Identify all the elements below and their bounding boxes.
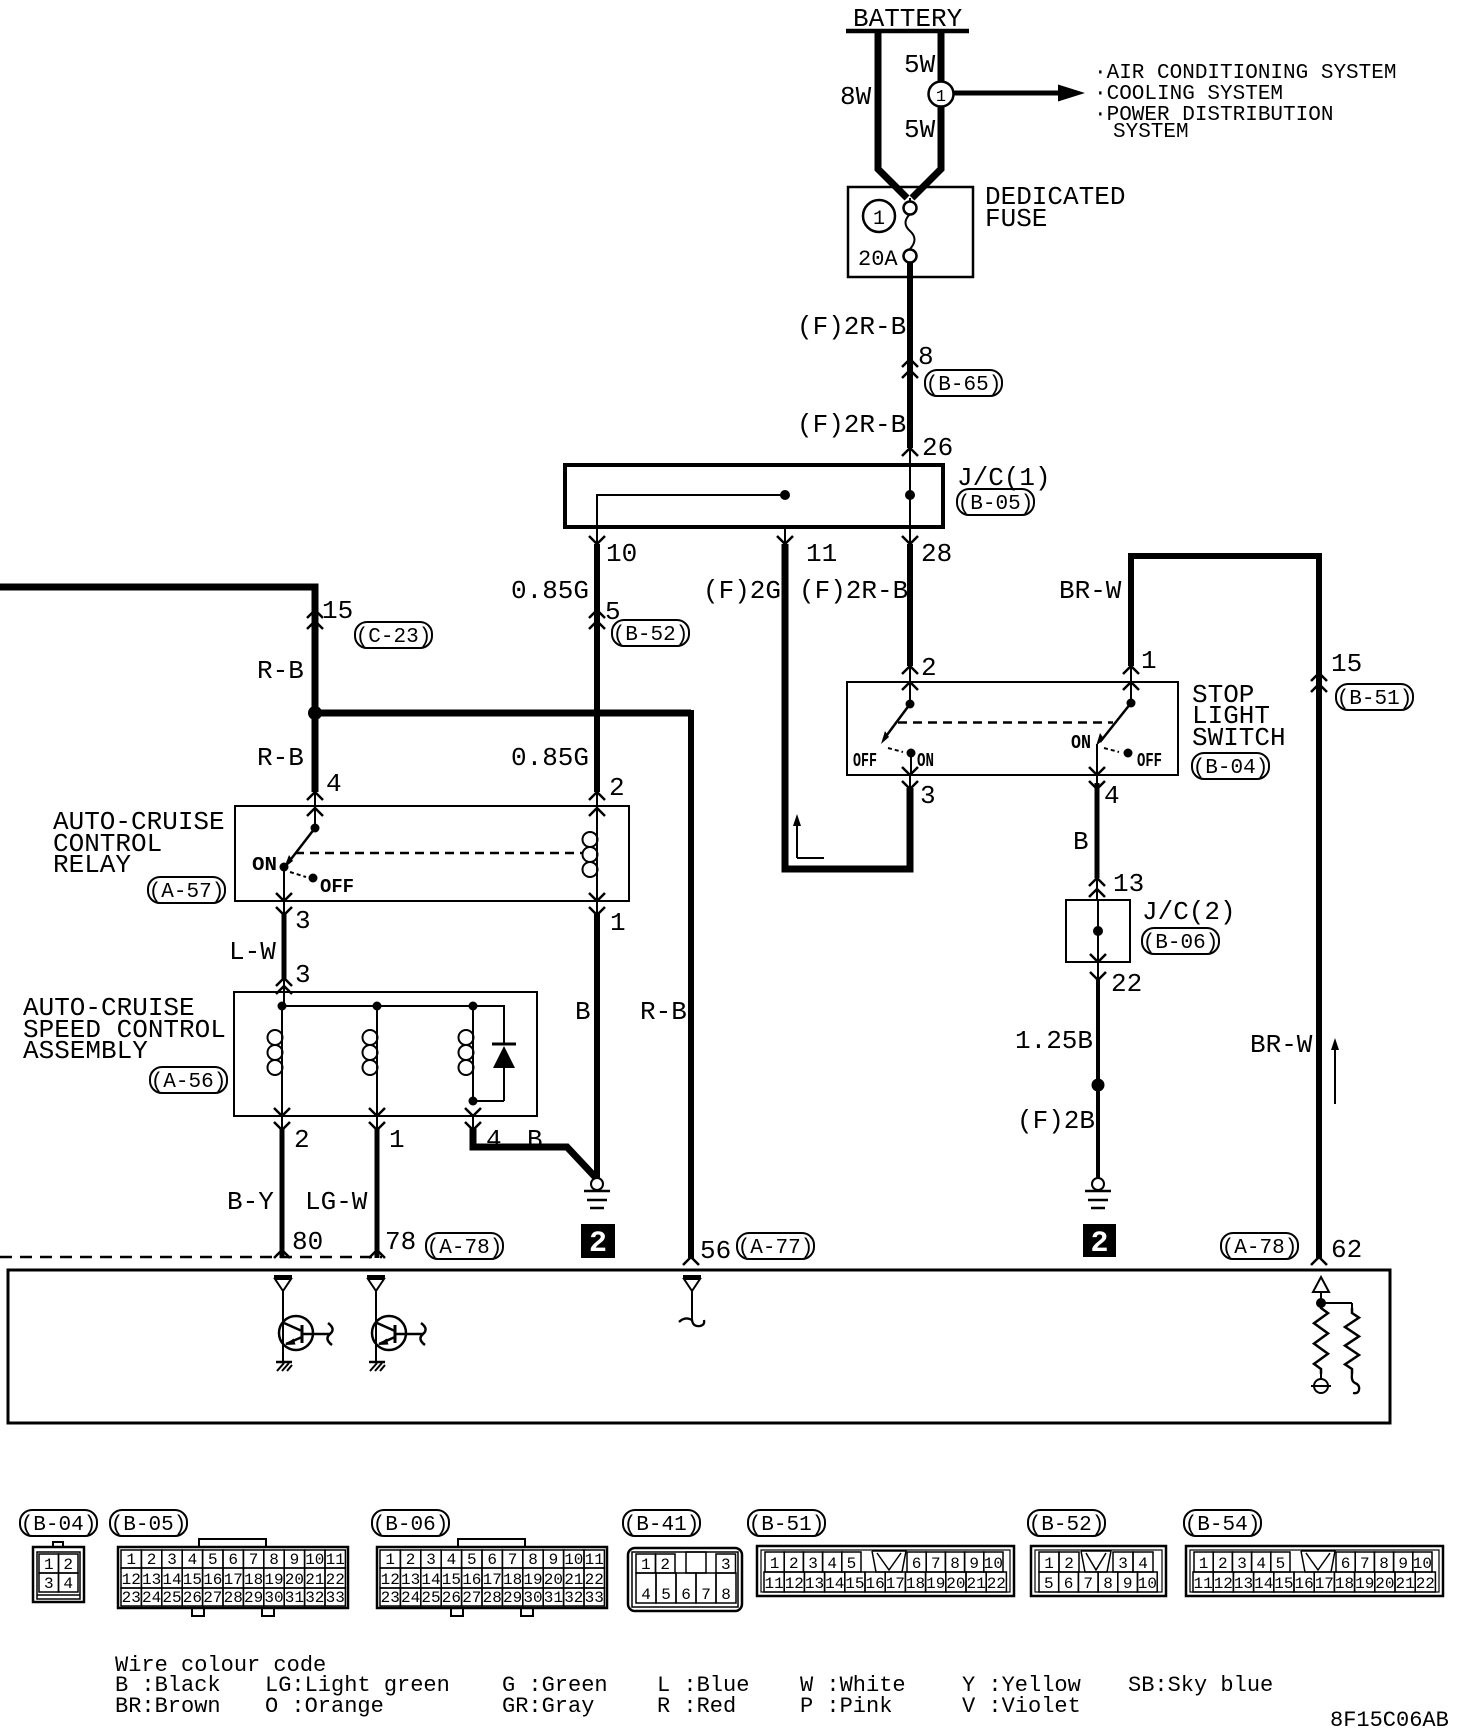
svg-text:17: 17: [224, 1571, 243, 1589]
wire battery left lead 8W: [878, 31, 907, 198]
svg-text:3: 3: [1237, 1555, 1247, 1573]
wire battery right lead 5W: [912, 31, 941, 198]
stoplight left ON contact lead: [910, 753, 912, 775]
stoplight right OFF contact dashed: [1104, 748, 1119, 752]
svg-text:R-B: R-B: [257, 656, 304, 686]
svg-text:R-B: R-B: [640, 997, 687, 1027]
svg-text:(B-51): (B-51): [1337, 688, 1413, 711]
node bus dot 3: [469, 1002, 478, 1011]
svg-text:1: 1: [1199, 1555, 1209, 1573]
ground ref box 2 right: [1083, 1224, 1116, 1257]
connector B-51 pill: [1336, 684, 1413, 710]
svg-text:9: 9: [549, 1551, 559, 1569]
svg-text:(B-04): (B-04): [1193, 757, 1269, 780]
wire J/C(1) internal bus: [597, 495, 785, 527]
wire 1.25B: [1096, 980, 1100, 1179]
svg-text:L-W: L-W: [229, 937, 276, 967]
connector B-04 pinout: [53, 1542, 63, 1547]
svg-text:(F)2R-B: (F)2R-B: [797, 312, 906, 342]
svg-text:21: 21: [564, 1571, 583, 1589]
diode D1: [492, 1043, 516, 1046]
relay switch arm: [288, 828, 315, 863]
svg-text:4: 4: [827, 1555, 837, 1573]
svg-text:22: 22: [1111, 969, 1142, 999]
svg-text:17: 17: [483, 1571, 502, 1589]
pin 2 exit chevrons: [281, 1116, 283, 1131]
svg-text:1: 1: [1044, 1555, 1054, 1573]
svg-text:5: 5: [847, 1555, 857, 1573]
svg-text:2: 2: [1064, 1555, 1074, 1573]
stoplight right switch arm: [1100, 703, 1131, 742]
ECU box: [8, 1270, 1390, 1423]
svg-text:(F)2R-B: (F)2R-B: [799, 576, 908, 606]
svg-text:23: 23: [381, 1589, 400, 1607]
svg-text:0.85G: 0.85G: [511, 743, 589, 773]
svg-text:8: 8: [950, 1555, 960, 1573]
svg-text:19: 19: [523, 1571, 542, 1589]
svg-text:5: 5: [208, 1551, 218, 1569]
svg-text:SB:Sky blue: SB:Sky blue: [1128, 1673, 1273, 1698]
pin 10 exit chevron: [596, 527, 598, 545]
connector A-77 pill: [737, 1233, 814, 1259]
relay coil: [596, 808, 598, 901]
svg-text:19: 19: [1355, 1575, 1374, 1593]
svg-text:J/C(2): J/C(2): [1142, 897, 1236, 927]
svg-text:B: B: [1073, 827, 1089, 857]
svg-text:26: 26: [183, 1589, 202, 1607]
svg-text:33: 33: [585, 1589, 604, 1607]
svg-text:3: 3: [295, 906, 311, 936]
svg-text:24: 24: [142, 1589, 161, 1607]
connector A-57 pill: [148, 877, 225, 903]
svg-text:8: 8: [918, 342, 934, 372]
svg-text:ASSEMBLY: ASSEMBLY: [23, 1036, 148, 1066]
ground chassis Q1: [276, 1361, 292, 1364]
connector B-41 pinout: [628, 1548, 742, 1611]
relay ON contact: [280, 863, 289, 872]
svg-text:1: 1: [770, 1555, 780, 1573]
svg-text:SWITCH: SWITCH: [1192, 723, 1286, 753]
node junction R-B branch: [308, 706, 322, 720]
svg-text:2: 2: [1090, 1227, 1108, 1261]
wire B relay pin1 to ground: [594, 913, 600, 1179]
wire (F)2G run: [785, 544, 910, 869]
svg-text:13: 13: [401, 1571, 420, 1589]
wire arrow to other systems: [954, 91, 1058, 96]
pin 3 entry chevrons A-56: [276, 978, 292, 986]
node junction dot J/C2: [1093, 926, 1103, 936]
svg-text:12: 12: [1214, 1575, 1233, 1593]
svg-text:3: 3: [1118, 1555, 1128, 1573]
wire B-Y: [280, 1128, 285, 1258]
svg-text:4: 4: [326, 769, 342, 799]
svg-text:9: 9: [290, 1551, 300, 1569]
svg-text:18: 18: [244, 1571, 263, 1589]
stop light switch box: [847, 682, 1178, 775]
svg-text:·COOLING SYSTEM: ·COOLING SYSTEM: [1094, 83, 1283, 106]
svg-text:·AIR CONDITIONING SYSTEM: ·AIR CONDITIONING SYSTEM: [1094, 62, 1396, 85]
svg-text:1: 1: [389, 1125, 405, 1155]
connector B-05 pill: [957, 489, 1034, 515]
svg-text:30: 30: [523, 1589, 542, 1607]
svg-text:5: 5: [1276, 1555, 1286, 1573]
pin 1 exit chevrons coil: [596, 901, 598, 915]
stoplight switch mechanical link dashed: [898, 721, 1113, 724]
svg-text:8: 8: [1103, 1575, 1113, 1593]
svg-text:16: 16: [203, 1571, 222, 1589]
svg-text:56: 56: [700, 1236, 731, 1266]
svg-text:6: 6: [228, 1551, 238, 1569]
resistor R1: [1314, 1303, 1328, 1374]
pin 4 exit chevrons: [1096, 775, 1098, 790]
svg-text:14: 14: [421, 1571, 440, 1589]
connector A-78 pill right: [1221, 1233, 1298, 1259]
svg-text:(F)2R-B: (F)2R-B: [797, 410, 906, 440]
svg-text:2: 2: [294, 1125, 310, 1155]
svg-text:5: 5: [467, 1551, 477, 1569]
svg-text:2: 2: [660, 1556, 670, 1574]
svg-text:29: 29: [244, 1589, 263, 1607]
connector B-54 pinout label: [1184, 1510, 1261, 1536]
svg-text:3: 3: [808, 1555, 818, 1573]
svg-text:(B-06): (B-06): [373, 1514, 449, 1537]
svg-text:1: 1: [385, 1551, 395, 1569]
svg-text:5: 5: [1044, 1575, 1054, 1593]
svg-text:(F)2B: (F)2B: [1017, 1106, 1095, 1136]
svg-text:10: 10: [1413, 1555, 1432, 1573]
svg-text:4: 4: [1138, 1555, 1148, 1573]
svg-text:8: 8: [269, 1551, 279, 1569]
svg-text:(C-23): (C-23): [356, 626, 432, 649]
svg-text:18: 18: [906, 1575, 925, 1593]
svg-text:0.85G: 0.85G: [511, 576, 589, 606]
connector B-51 inline chevrons: [1311, 673, 1327, 681]
svg-text:13: 13: [1113, 869, 1144, 899]
svg-text:20A: 20A: [858, 247, 898, 272]
svg-text:8: 8: [1379, 1555, 1389, 1573]
svg-text:(B-05): (B-05): [958, 493, 1034, 516]
svg-text:4: 4: [1256, 1555, 1266, 1573]
transistor Q2: [372, 1316, 406, 1350]
svg-text:(B-04): (B-04): [21, 1514, 97, 1537]
svg-text:13: 13: [1234, 1575, 1253, 1593]
connector B-52 inline chevrons: [589, 610, 605, 618]
svg-text:15: 15: [1274, 1575, 1293, 1593]
svg-text:16: 16: [865, 1575, 884, 1593]
svg-text:15: 15: [1331, 649, 1362, 679]
svg-text:80: 80: [292, 1227, 323, 1257]
svg-text:10: 10: [984, 1555, 1003, 1573]
svg-text:15: 15: [442, 1571, 461, 1589]
svg-text:6: 6: [487, 1551, 497, 1569]
connector B-06 pinout: [458, 1539, 525, 1547]
wire fuse output (F)2R-B: [907, 262, 913, 448]
pin 11 exit chevron: [784, 527, 786, 545]
svg-text:62: 62: [1331, 1235, 1362, 1265]
connector C-23 pill: [355, 622, 432, 648]
pin 56 input triangle: [683, 1275, 701, 1279]
svg-text:2: 2: [1218, 1555, 1228, 1573]
svg-text:11: 11: [764, 1575, 783, 1593]
wire R-B down to A-77 pin56: [688, 710, 694, 1258]
svg-text:11: 11: [1193, 1575, 1212, 1593]
connector B-04 pinout label: [20, 1510, 97, 1536]
svg-text:31: 31: [285, 1589, 304, 1607]
svg-text:32: 32: [305, 1589, 324, 1607]
svg-text:22: 22: [1416, 1575, 1435, 1593]
svg-text:20: 20: [544, 1571, 563, 1589]
pin 4 exit chevrons: [472, 1116, 474, 1131]
svg-text:OFF: OFF: [853, 750, 877, 772]
solenoid coil 2: [376, 1006, 378, 1116]
svg-text:6: 6: [1064, 1575, 1074, 1593]
svg-text:9: 9: [1398, 1555, 1408, 1573]
svg-text:21: 21: [305, 1571, 324, 1589]
svg-text:15: 15: [183, 1571, 202, 1589]
connector B-52 pinout: [1031, 1546, 1166, 1596]
resistor R2: [1345, 1308, 1359, 1374]
connector B-51 pinout: [757, 1546, 1014, 1596]
svg-text:18: 18: [1335, 1575, 1354, 1593]
junction block J/C(1) B-05 box: [565, 465, 943, 527]
svg-text:O :Orange: O :Orange: [265, 1694, 384, 1719]
wire L-W: [282, 913, 287, 980]
node junction dot 1.25B/(F)2B: [1092, 1079, 1105, 1092]
svg-text:78: 78: [385, 1227, 416, 1257]
wire B to ground: [473, 1128, 597, 1179]
svg-text:3: 3: [920, 781, 936, 811]
svg-text:23: 23: [122, 1589, 141, 1607]
svg-text:(A-56): (A-56): [151, 1071, 227, 1094]
svg-text:17: 17: [1315, 1575, 1334, 1593]
svg-text:3: 3: [721, 1556, 731, 1574]
svg-text:21: 21: [966, 1575, 985, 1593]
svg-text:P :Pink: P :Pink: [800, 1694, 892, 1719]
svg-text:26: 26: [922, 433, 953, 463]
svg-text:9: 9: [969, 1555, 979, 1573]
pin 62 entry chevron: [1311, 1257, 1327, 1265]
ground ref box 2 left: [581, 1224, 615, 1258]
svg-text:3: 3: [295, 960, 311, 990]
svg-text:RELAY: RELAY: [53, 850, 131, 880]
connector B-05 pinout label: [110, 1510, 187, 1536]
stoplight pin2 entry chevrons: [902, 666, 918, 674]
svg-text:5: 5: [661, 1586, 671, 1604]
node junction dot pin28: [905, 490, 915, 500]
svg-text:16: 16: [1294, 1575, 1313, 1593]
node junction dot pin11: [780, 490, 790, 500]
pin 3 exit chevrons relay: [283, 901, 285, 915]
node diode bottom dot: [469, 1097, 478, 1106]
ground right: [1092, 1178, 1104, 1190]
svg-text:(B-05): (B-05): [111, 1514, 187, 1537]
node 1 circled on right lead: [929, 82, 954, 107]
flow arrow up near BR-W: [1334, 1046, 1336, 1104]
auto-cruise control relay box: [235, 806, 629, 901]
svg-text:7: 7: [1083, 1575, 1093, 1593]
svg-text:8: 8: [721, 1586, 731, 1604]
svg-text:1: 1: [126, 1551, 136, 1569]
svg-text:25: 25: [162, 1589, 181, 1607]
svg-text:27: 27: [462, 1589, 481, 1607]
transistor Q1: [279, 1316, 313, 1350]
svg-text:2: 2: [589, 1227, 607, 1261]
solenoid coil 1: [281, 1006, 283, 1116]
svg-text:7: 7: [701, 1586, 711, 1604]
connector A-78 dashed boundary: [0, 1256, 382, 1259]
pin 56 entry chevron: [683, 1257, 699, 1265]
battery bus bar: [846, 29, 969, 34]
svg-text:16: 16: [462, 1571, 481, 1589]
svg-text:BR-W: BR-W: [1250, 1030, 1313, 1060]
connector B-51 pinout label: [748, 1510, 825, 1536]
fuse number 1 circled: [863, 200, 895, 232]
svg-text:20: 20: [285, 1571, 304, 1589]
svg-text:25: 25: [421, 1589, 440, 1607]
svg-text:(A-78): (A-78): [427, 1237, 503, 1260]
svg-text:(B-41): (B-41): [624, 1514, 700, 1537]
svg-text:(A-57): (A-57): [149, 881, 225, 904]
resistor R2 tail hook: [1352, 1374, 1359, 1393]
svg-text:1: 1: [641, 1556, 651, 1574]
stoplight left switch arm: [884, 704, 910, 739]
svg-text:17: 17: [886, 1575, 905, 1593]
node bus dot 1: [278, 1002, 287, 1011]
svg-text:15: 15: [322, 596, 353, 626]
svg-text:10: 10: [305, 1551, 324, 1569]
svg-text:26: 26: [442, 1589, 461, 1607]
pin 28 exit chevron: [909, 527, 911, 545]
wire B stoplight to J/C2: [1095, 783, 1100, 878]
svg-text:(A-77): (A-77): [738, 1237, 814, 1260]
svg-text:19: 19: [264, 1571, 283, 1589]
svg-text:(B-65): (B-65): [926, 374, 1002, 397]
svg-text:SYSTEM: SYSTEM: [1113, 121, 1189, 144]
connector B-54 pinout: [1186, 1546, 1443, 1596]
svg-text:15: 15: [845, 1575, 864, 1593]
svg-text:11: 11: [326, 1551, 345, 1569]
pin 78 input triangle: [367, 1275, 385, 1279]
svg-text:4: 4: [447, 1551, 457, 1569]
svg-text:1: 1: [44, 1556, 54, 1574]
svg-text:(B-06): (B-06): [1143, 932, 1219, 955]
svg-text:14: 14: [825, 1575, 844, 1593]
svg-text:13: 13: [142, 1571, 161, 1589]
connector B-04 pill: [1192, 753, 1269, 779]
svg-text:6: 6: [912, 1555, 922, 1573]
svg-text:(B-51): (B-51): [749, 1514, 825, 1537]
wire J/C(1) internal through 26-28: [909, 465, 911, 527]
svg-text:32: 32: [564, 1589, 583, 1607]
auto-cruise speed control assembly box: [234, 992, 537, 1116]
svg-text:13: 13: [805, 1575, 824, 1593]
svg-text:BR:Brown: BR:Brown: [115, 1694, 221, 1719]
pin 80 input triangle: [274, 1275, 292, 1279]
svg-text:(B-52): (B-52): [613, 624, 689, 647]
svg-text:3: 3: [426, 1551, 436, 1569]
svg-text:B-Y: B-Y: [227, 1187, 274, 1217]
svg-text:1: 1: [873, 208, 885, 231]
svg-text:4: 4: [641, 1586, 651, 1604]
pin 78 entry chevron: [369, 1250, 385, 1258]
svg-text:7: 7: [249, 1551, 259, 1569]
dedicated fuse box: [848, 187, 973, 277]
svg-text:2: 2: [406, 1551, 416, 1569]
wire 0.85G: [594, 544, 600, 792]
svg-text:12: 12: [381, 1571, 400, 1589]
JC2 pin13 entry chevrons: [1089, 878, 1105, 886]
svg-text:20: 20: [946, 1575, 965, 1593]
svg-text:(B-52): (B-52): [1029, 1514, 1105, 1537]
svg-text:(A-78): (A-78): [1222, 1237, 1298, 1260]
svg-text:1: 1: [610, 908, 626, 938]
wire J/C(2) internal: [1097, 900, 1099, 962]
svg-text:28: 28: [483, 1589, 502, 1607]
svg-text:ON: ON: [917, 750, 934, 772]
assembly internal bus: [282, 1006, 504, 1044]
svg-text:24: 24: [401, 1589, 420, 1607]
svg-text:31: 31: [544, 1589, 563, 1607]
connector B-52 pill: [612, 620, 689, 646]
stoplight pin1 entry chevrons: [1123, 666, 1139, 674]
svg-text:12: 12: [122, 1571, 141, 1589]
svg-text:7: 7: [1360, 1555, 1370, 1573]
ground left: [591, 1178, 603, 1190]
svg-text:V :Violet: V :Violet: [962, 1694, 1081, 1719]
pin 62 output triangle: [1313, 1277, 1329, 1292]
wire BR-W loop: [1131, 556, 1319, 1258]
ground chassis Q2: [369, 1361, 385, 1364]
svg-text:22: 22: [987, 1575, 1006, 1593]
svg-text:8F15C06AB: 8F15C06AB: [1330, 1708, 1449, 1732]
pin 1 exit chevrons: [376, 1116, 378, 1131]
svg-text:21: 21: [1395, 1575, 1414, 1593]
svg-text:9: 9: [1123, 1575, 1133, 1593]
svg-text:11: 11: [806, 539, 837, 569]
svg-text:6: 6: [681, 1586, 691, 1604]
svg-text:2: 2: [147, 1551, 157, 1569]
svg-text:7: 7: [931, 1555, 941, 1573]
relay pin4 entry chevrons: [307, 792, 323, 800]
svg-text:1: 1: [1141, 646, 1157, 676]
svg-text:33: 33: [326, 1589, 345, 1607]
svg-text:4: 4: [188, 1551, 198, 1569]
svg-text:2: 2: [609, 773, 625, 803]
pin 22 exit chevron: [1097, 962, 1099, 981]
wire R-B trunk from C-23: [0, 587, 315, 792]
sensor terminal circle: [1320, 1374, 1322, 1379]
svg-text:GR:Gray: GR:Gray: [502, 1694, 594, 1719]
connector B-65 inline chevrons: [902, 359, 918, 367]
svg-text:29: 29: [503, 1589, 522, 1607]
svg-text:14: 14: [1254, 1575, 1273, 1593]
pin 3 exit chevrons: [909, 775, 911, 790]
fuse F1 element: [909, 198, 911, 202]
connector A-78 pill left: [426, 1233, 503, 1259]
svg-text:10: 10: [606, 539, 637, 569]
svg-text:8W: 8W: [840, 82, 872, 112]
svg-text:3: 3: [44, 1575, 54, 1593]
svg-text:6: 6: [1341, 1555, 1351, 1573]
svg-text:19: 19: [926, 1575, 945, 1593]
svg-text:OFF: OFF: [320, 876, 354, 898]
connector B-06 pinout label: [372, 1510, 449, 1536]
svg-text:2: 2: [63, 1556, 73, 1574]
svg-text:20: 20: [1375, 1575, 1394, 1593]
svg-text:5W: 5W: [904, 115, 936, 145]
svg-text:1: 1: [936, 88, 946, 107]
connector B-05 pinout: [199, 1539, 266, 1547]
